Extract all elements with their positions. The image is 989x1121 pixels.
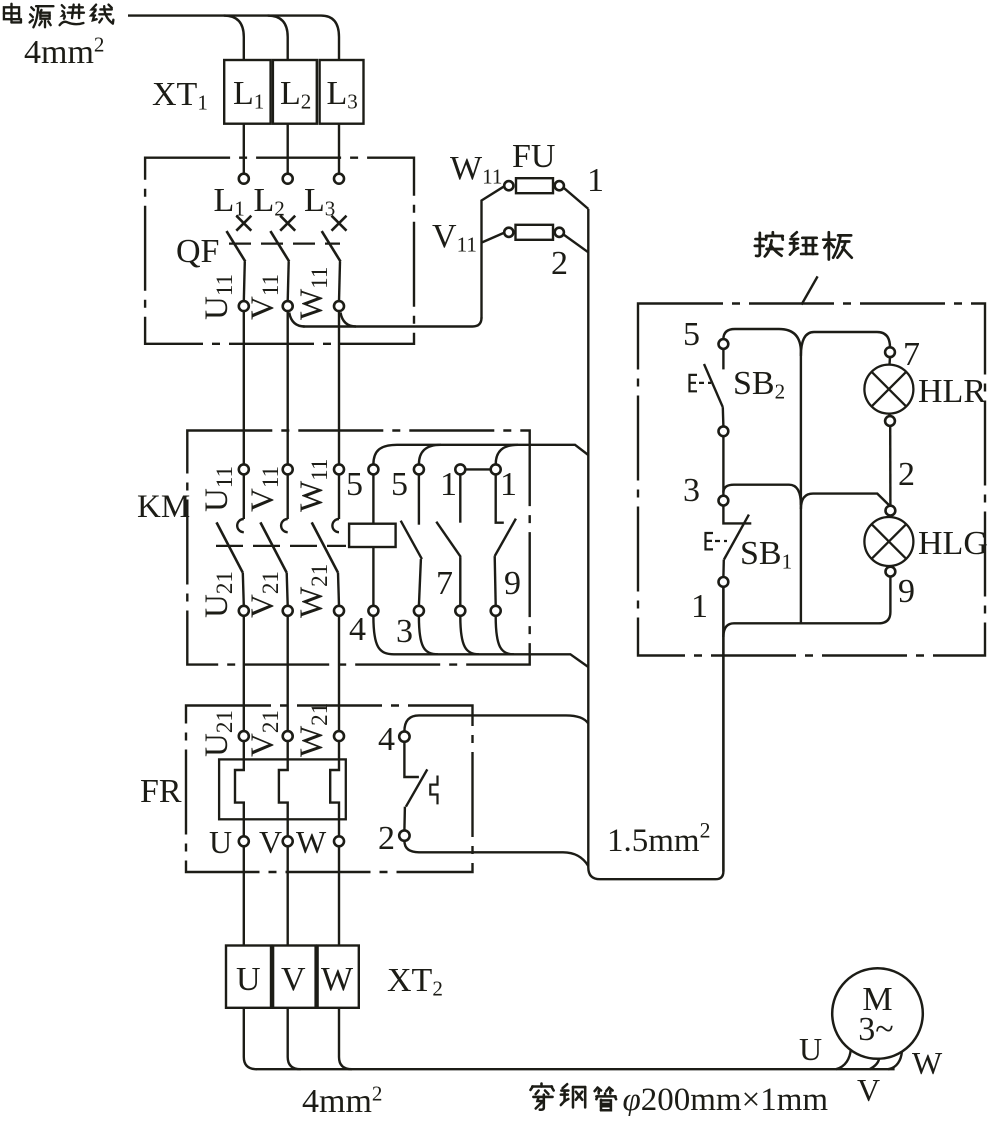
svg-text:3: 3 xyxy=(683,472,700,509)
terminal circle KM bottom V21 xyxy=(283,606,293,616)
wire bundle KM bottom (to control riser) xyxy=(373,616,588,667)
main contact arc xyxy=(332,519,339,532)
FR thermal actuator zigzag xyxy=(430,776,437,805)
wire junction to fuse FU-2 xyxy=(482,233,505,243)
wire V FR to XT2 xyxy=(287,847,289,946)
svg-text:KM: KM xyxy=(137,489,190,525)
wire blade to lower terminal xyxy=(339,262,340,302)
wire fixed contact xyxy=(338,474,340,519)
wire W to motor run xyxy=(339,1008,352,1069)
wire aux fixed xyxy=(418,474,420,524)
svg-text:9: 9 xyxy=(504,565,521,602)
wire bundle to lamp HLR (7) xyxy=(801,332,890,356)
terminal circle SB2 top (5) xyxy=(719,339,729,349)
svg-text:4mm2: 4mm2 xyxy=(302,1081,382,1116)
terminal circle KM bottom U21 xyxy=(239,606,249,616)
wire aux bottom curve to bundle xyxy=(419,616,438,654)
wire aux2 bottom curve to bundle xyxy=(460,616,479,654)
wire aux top curve to bundle xyxy=(419,445,441,465)
svg-text:7: 7 xyxy=(903,336,920,373)
svg-text:V: V xyxy=(281,961,306,998)
wire fuse1 output to bundle xyxy=(564,188,589,209)
terminal circle QF top L2 xyxy=(283,174,293,184)
svg-text:V: V xyxy=(259,824,282,860)
terminal circle KM coil top (5) xyxy=(368,464,378,474)
wire blade to bottom terminal xyxy=(338,573,339,606)
wire aux3 bottom curve to bundle xyxy=(496,616,514,654)
terminal circle FR bottom U xyxy=(239,836,249,846)
aux2 NO blade xyxy=(436,522,461,557)
terminal circle KM top V11 xyxy=(283,464,293,474)
wire bundle to lamp HLG (2) xyxy=(801,494,891,509)
aux3 NC blade xyxy=(495,519,516,557)
terminal circle FR contact 2 xyxy=(399,830,409,840)
lamp HLG xyxy=(864,517,913,566)
breaker contact x-mark xyxy=(332,216,347,231)
terminal circle QF bottom V11 xyxy=(283,301,293,311)
svg-text:4mm2: 4mm2 xyxy=(24,32,104,71)
terminal circle SB1 bottom (1) xyxy=(719,577,729,587)
wire control feed horizontal to riser xyxy=(303,318,482,327)
wire panel bundle vertical xyxy=(800,352,802,623)
terminal circle HLR bottom xyxy=(885,416,895,426)
svg-text:3~: 3~ xyxy=(858,1011,893,1048)
motor M 3~ xyxy=(832,968,923,1059)
contactor KM enclosure box xyxy=(187,431,529,665)
wire aux3 to bottom xyxy=(495,556,496,606)
thermal relay FR enclosure box xyxy=(186,706,473,873)
wire blade to bottom terminal xyxy=(243,573,244,606)
svg-text:2: 2 xyxy=(378,820,395,857)
terminal circle KM top U11 xyxy=(239,464,249,474)
wire SB2 to SB1 (node 3) xyxy=(722,436,724,496)
lamp HLR xyxy=(864,365,913,414)
wire node 5 to bundle xyxy=(723,329,801,352)
svg-text:1.5mm2: 1.5mm2 xyxy=(607,818,710,859)
svg-text:V: V xyxy=(857,1072,880,1108)
wire node 3 to bundle xyxy=(723,485,801,505)
terminal circle KM top W11 xyxy=(334,464,344,474)
terminal circle KM bottom W21 xyxy=(334,606,344,616)
svg-text:9: 9 xyxy=(898,573,915,610)
terminal circle HLR top (7) xyxy=(885,347,895,357)
terminal circle QF top L1 xyxy=(239,174,249,184)
wire FR contact fixed with seat xyxy=(404,742,419,777)
heater element FR pole V xyxy=(279,741,288,836)
wire branch V11 curve to control feed xyxy=(289,313,305,327)
wire 2 between lamps xyxy=(889,426,892,506)
wire aux to bottom xyxy=(419,559,421,606)
switch blade QF pole V11 xyxy=(270,231,289,261)
wire U FR to XT2 xyxy=(243,847,245,946)
wire U21 KM to FR xyxy=(243,616,245,731)
wire motor V lead xyxy=(870,1058,880,1069)
wire fixed contact xyxy=(287,474,289,519)
SB1 NC blade xyxy=(724,515,749,560)
wire L3 XT1 to QF xyxy=(338,124,340,174)
terminal circle KM aux3 top (1) xyxy=(491,464,501,474)
wire V21 KM to FR xyxy=(287,616,289,731)
svg-text:U: U xyxy=(799,1031,822,1067)
terminal circle SB2 bottom xyxy=(719,426,729,436)
wire aux3 fixed with seat xyxy=(496,474,504,522)
label: button panel (an-niu-ban) xyxy=(755,232,783,256)
svg-text:HLG: HLG xyxy=(918,525,988,562)
terminal circle KM aux2 bottom (7) xyxy=(455,606,465,616)
terminal circle FR contact 4 xyxy=(399,731,409,741)
wire V11 QF to KM xyxy=(287,311,289,464)
fuse FU-1 xyxy=(504,181,513,190)
wire FR-4 to bundle xyxy=(404,715,588,731)
svg-text:U: U xyxy=(209,824,232,860)
svg-text:1: 1 xyxy=(500,466,517,503)
aux NO blade xyxy=(401,521,422,559)
terminal circle KM aux2 top (1) xyxy=(455,464,465,474)
SB2 NO blade xyxy=(704,364,723,407)
svg-text:1: 1 xyxy=(440,466,457,503)
button actuator E (SB2) xyxy=(690,375,698,391)
wire L1 XT1 to QF xyxy=(243,124,245,174)
terminal block XT1 xyxy=(224,60,270,124)
wire SB2 fixed xyxy=(722,349,724,370)
wire node 9 branch to node 1 xyxy=(723,577,890,638)
breaker contact x-mark xyxy=(236,216,251,231)
wire SB1 blade to bottom xyxy=(722,560,725,578)
wire blade to bottom terminal xyxy=(287,573,288,606)
terminal circle QF top L3 xyxy=(334,174,344,184)
svg-text:HLR: HLR xyxy=(918,373,986,410)
terminal circle HLG top (2) xyxy=(886,506,896,516)
button actuator E (SB1) xyxy=(706,533,714,549)
switch blade KM pole V xyxy=(260,522,286,572)
svg-text:2: 2 xyxy=(898,456,915,493)
terminal circle FR top W21 xyxy=(334,731,344,741)
mechanical linkage dashed line (QF) xyxy=(229,242,340,244)
svg-text:W: W xyxy=(296,824,327,860)
terminal circle KM aux bottom (3) xyxy=(414,606,424,616)
wire U11 QF to KM xyxy=(243,311,245,464)
wire aux3 top curve to bundle xyxy=(496,445,518,465)
svg-text:U: U xyxy=(236,961,261,998)
label: power incoming line (dian-yuan-jin-xian) xyxy=(4,4,21,23)
wire W11 QF to KM xyxy=(338,311,340,464)
wire coil bottom xyxy=(372,547,374,606)
wire V to motor run xyxy=(288,1008,301,1069)
terminal circle SB1 top (3) xyxy=(719,496,729,506)
wire blade to lower terminal xyxy=(288,262,289,302)
switch blade KM pole W xyxy=(312,522,338,572)
wire: branch curve to L3 xyxy=(321,16,339,60)
wire coil top xyxy=(372,474,374,523)
heater element FR pole U xyxy=(235,741,244,836)
mechanical linkage dashed line (KM) xyxy=(216,545,346,547)
coil KM (rectangle) xyxy=(349,524,396,547)
svg-text:W: W xyxy=(912,1045,943,1081)
wire U to motor run xyxy=(244,1008,257,1069)
wire fixed contact xyxy=(243,474,245,519)
wire blade to lower terminal xyxy=(244,262,245,302)
FR NC blade xyxy=(406,769,427,806)
svg-text:5: 5 xyxy=(346,466,363,503)
svg-text:4: 4 xyxy=(349,611,366,648)
wire aux2 to bottom xyxy=(459,557,461,606)
wire FR blade to 2 xyxy=(403,807,406,831)
switch blade QF pole W11 xyxy=(322,231,341,261)
svg-text:φ200mm×1mm: φ200mm×1mm xyxy=(623,1082,829,1116)
wire: branch curve to L1 xyxy=(224,16,244,60)
svg-text:FU: FU xyxy=(512,138,555,175)
wire control bundle vertical riser xyxy=(588,209,723,879)
terminal circle FR top U21 xyxy=(239,731,249,741)
terminal circle QF bottom U11 xyxy=(239,301,249,311)
terminal circle KM aux top (5) xyxy=(414,464,424,474)
wire bottom run to motor xyxy=(256,1068,895,1070)
main contact arc xyxy=(281,519,288,532)
terminal circle HLG bottom (9) xyxy=(886,567,896,577)
wire SB1 fixed with seat xyxy=(723,506,751,524)
breaker QF enclosure box xyxy=(145,158,414,344)
switch blade KM pole U xyxy=(217,522,243,572)
terminal circle KM coil bottom (4) xyxy=(368,606,378,616)
terminal circle KM aux3 bottom (9) xyxy=(491,606,501,616)
wire W21 KM to FR xyxy=(338,616,340,731)
main contact arc xyxy=(237,519,244,532)
wire SB2 blade to bottom xyxy=(722,407,725,426)
wire link between the two 1 terminals xyxy=(465,468,490,470)
wire motor W lead xyxy=(888,1052,902,1070)
button panel enclosure box xyxy=(638,304,985,656)
wire L2 XT1 to QF xyxy=(287,124,289,174)
svg-text:1: 1 xyxy=(587,162,604,199)
svg-text:W: W xyxy=(321,961,354,998)
wire fuse2 output to bundle xyxy=(564,235,589,253)
callout line to panel box xyxy=(802,276,818,304)
wire motor U lead xyxy=(836,1050,851,1070)
heater block outline (FR) xyxy=(219,759,346,819)
wire aux2 fixed xyxy=(459,474,461,522)
svg-text:3: 3 xyxy=(396,613,413,650)
terminal block XT2 xyxy=(226,946,271,1008)
terminal circle FR top V21 xyxy=(283,731,293,741)
breaker contact x-mark xyxy=(280,216,295,231)
switch blade QF pole U11 xyxy=(227,231,246,261)
svg-text:QF: QF xyxy=(176,233,219,270)
wire branch W11 curve to control feed xyxy=(341,313,357,327)
svg-text:7: 7 xyxy=(436,565,453,602)
svg-text:FR: FR xyxy=(140,773,182,810)
terminal circle FR bottom W xyxy=(334,836,344,846)
wire: incoming supply horizontal xyxy=(128,14,321,16)
wire: branch curve to L2 xyxy=(268,16,288,60)
label: steel conduit phi200mm x 1mm xyxy=(530,1084,553,1110)
svg-text:1: 1 xyxy=(691,588,708,625)
wire bundle KM top (to control riser) xyxy=(373,445,588,465)
terminal circle FR bottom V xyxy=(283,836,293,846)
svg-text:4: 4 xyxy=(378,721,395,758)
svg-text:2: 2 xyxy=(551,245,568,282)
wire riser to fuses xyxy=(482,186,505,318)
svg-text:5: 5 xyxy=(391,466,408,503)
heater element FR pole W xyxy=(330,741,339,836)
fuse FU-2 xyxy=(504,228,513,237)
wire W FR to XT2 xyxy=(338,847,340,946)
wire FR-2 to bundle xyxy=(404,841,588,866)
wire node 1 vertical (SB1 down through panel) xyxy=(722,587,724,872)
terminal circle QF bottom W11 xyxy=(334,301,344,311)
svg-text:5: 5 xyxy=(683,316,700,353)
